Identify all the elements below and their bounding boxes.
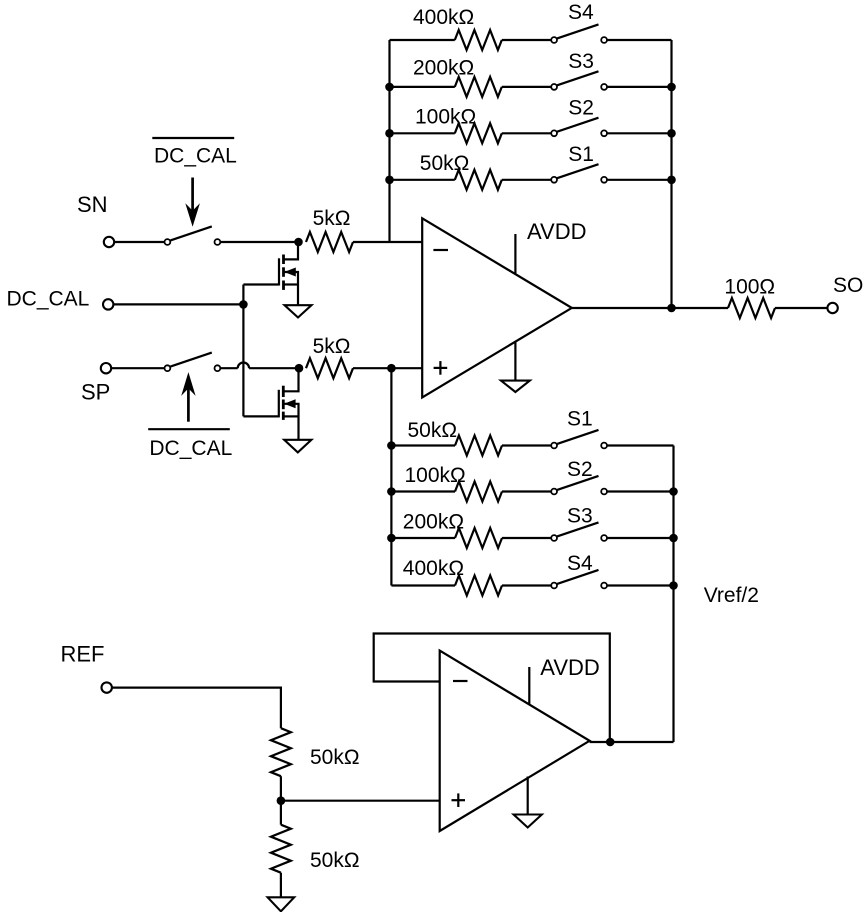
svg-text:Vref/2: Vref/2 [704,584,759,607]
svg-text:REF: REF [61,642,105,667]
svg-text:5kΩ: 5kΩ [313,335,351,358]
svg-text:SO: SO [833,274,863,297]
svg-text:S4: S4 [568,1,594,24]
svg-text:S4: S4 [567,552,593,575]
svg-text:S3: S3 [567,505,593,528]
svg-text:100kΩ: 100kΩ [405,464,466,487]
svg-text:400kΩ: 400kΩ [403,557,464,580]
svg-text:S1: S1 [567,407,593,430]
svg-text:DC_CAL: DC_CAL [154,145,237,168]
svg-text:S2: S2 [568,96,594,119]
svg-text:200kΩ: 200kΩ [403,511,464,534]
svg-text:50kΩ: 50kΩ [420,152,470,175]
svg-text:S1: S1 [568,143,594,166]
svg-text:AVDD: AVDD [540,655,600,680]
svg-text:DC_CAL: DC_CAL [7,288,90,311]
svg-text:5kΩ: 5kΩ [313,207,351,230]
svg-text:50kΩ: 50kΩ [310,849,360,872]
svg-text:400kΩ: 400kΩ [413,6,474,29]
svg-text:50kΩ: 50kΩ [408,419,458,442]
svg-text:SN: SN [77,192,108,217]
svg-text:DC_CAL: DC_CAL [149,437,232,460]
svg-text:AVDD: AVDD [527,219,587,244]
svg-text:S3: S3 [568,50,594,73]
svg-text:100kΩ: 100kΩ [415,105,476,128]
svg-text:100Ω: 100Ω [724,275,775,298]
svg-text:200kΩ: 200kΩ [413,57,474,80]
svg-text:S2: S2 [567,458,593,481]
svg-text:50kΩ: 50kΩ [310,746,360,769]
svg-text:SP: SP [81,379,110,404]
